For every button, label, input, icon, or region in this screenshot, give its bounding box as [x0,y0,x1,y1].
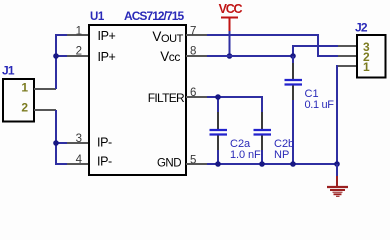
wire C2b bottom [261,150,263,164]
node junction (56,143) [53,140,59,146]
node junction (262,164) [259,161,265,167]
J2 pin 3 [338,45,356,47]
wire VCC drop to Vcc net [229,31,231,56]
svg-text:1: 1 [21,81,28,95]
node junction (229.5,56) [227,53,233,59]
U1 pin 1 [67,26,116,44]
svg-text:VCC: VCC [219,2,243,16]
svg-text:1: 1 [76,26,82,38]
wire FILTER net: pin6 to C2a/C2b [207,97,262,112]
svg-text:6: 6 [190,87,196,99]
wire J1.2 to U1 IP- (pins 3,4) [56,110,67,164]
svg-text:ACS712/715: ACS712/715 [124,9,184,23]
node junction (337,164) [334,161,340,167]
VCC power symbol [219,2,243,31]
svg-text:IP+: IP+ [98,29,116,43]
svg-text:1.0 nF: 1.0 nF [230,149,261,161]
svg-text:GND: GND [157,158,181,170]
wire Vcc net: pin8 to C1/J2 pin3 [207,55,293,57]
svg-text:IP-: IP- [97,155,112,169]
svg-text:7: 7 [190,26,196,38]
svg-text:J1: J1 [2,64,15,78]
U1 pin 6 FILTER [148,87,207,105]
wire J2 pin1 to GND net [337,66,339,164]
wire Vcc net branch up to J2 pin3 [293,46,338,56]
wire J1.1 to U1 IP+ (pins 1,2) [56,35,67,89]
svg-text:Vcc: Vcc [160,49,180,64]
svg-text:2: 2 [21,101,28,115]
U1 pin 4 [67,154,112,169]
svg-text:1: 1 [363,60,370,74]
node junction (293,164) [290,161,296,167]
node junction (293,56) [290,53,296,59]
capacitor C1 0.1 uF [285,63,335,111]
svg-text:5: 5 [190,155,196,167]
J2 pin 1 [338,65,356,67]
wire C2a bottom [217,150,219,164]
node junction (56,56) [53,53,59,59]
U1 pin 5 GND [157,155,207,170]
capacitor C2b NP [254,112,295,161]
svg-text:FILTER: FILTER [148,91,185,105]
svg-text:2: 2 [76,46,82,58]
svg-text:U1: U1 [90,11,105,23]
wire GND net: pin5 to ground [207,163,337,165]
node junction (218,97) [215,94,221,100]
J1 pin 1 [34,88,56,90]
capacitor C2a 1.0 nF [210,112,261,161]
U1 pin 3 [67,133,112,150]
svg-text:IP-: IP- [97,136,112,150]
U1 pin 7 VOUT [152,26,207,46]
U1 pin 2 [67,46,116,65]
svg-text:0.1 uF: 0.1 uF [305,99,335,111]
svg-text:NP: NP [274,149,289,161]
wire C1 top [292,56,294,63]
svg-text:8: 8 [190,46,196,58]
wire U1 pin2 stub [56,55,67,57]
J2 pin 2 [338,55,356,57]
J1 pin 2 [34,109,56,111]
connector J1 [2,64,56,122]
wire U1 pin3 stub [56,142,67,144]
U1 pin 8 Vcc [160,46,207,65]
svg-text:4: 4 [76,154,83,166]
node junction (218,164) [215,161,221,167]
op-amp U1 ACS712/715 body [89,9,186,175]
wire C2a top [217,97,219,112]
wire C1 bottom [292,100,294,164]
ground [327,164,348,196]
wire VOUT net: pin7 to J2 pin2 [207,35,338,56]
svg-text:3: 3 [76,133,82,145]
svg-text:J2: J2 [355,21,368,35]
connector J2 [338,21,386,78]
svg-text:IP+: IP+ [98,50,116,64]
